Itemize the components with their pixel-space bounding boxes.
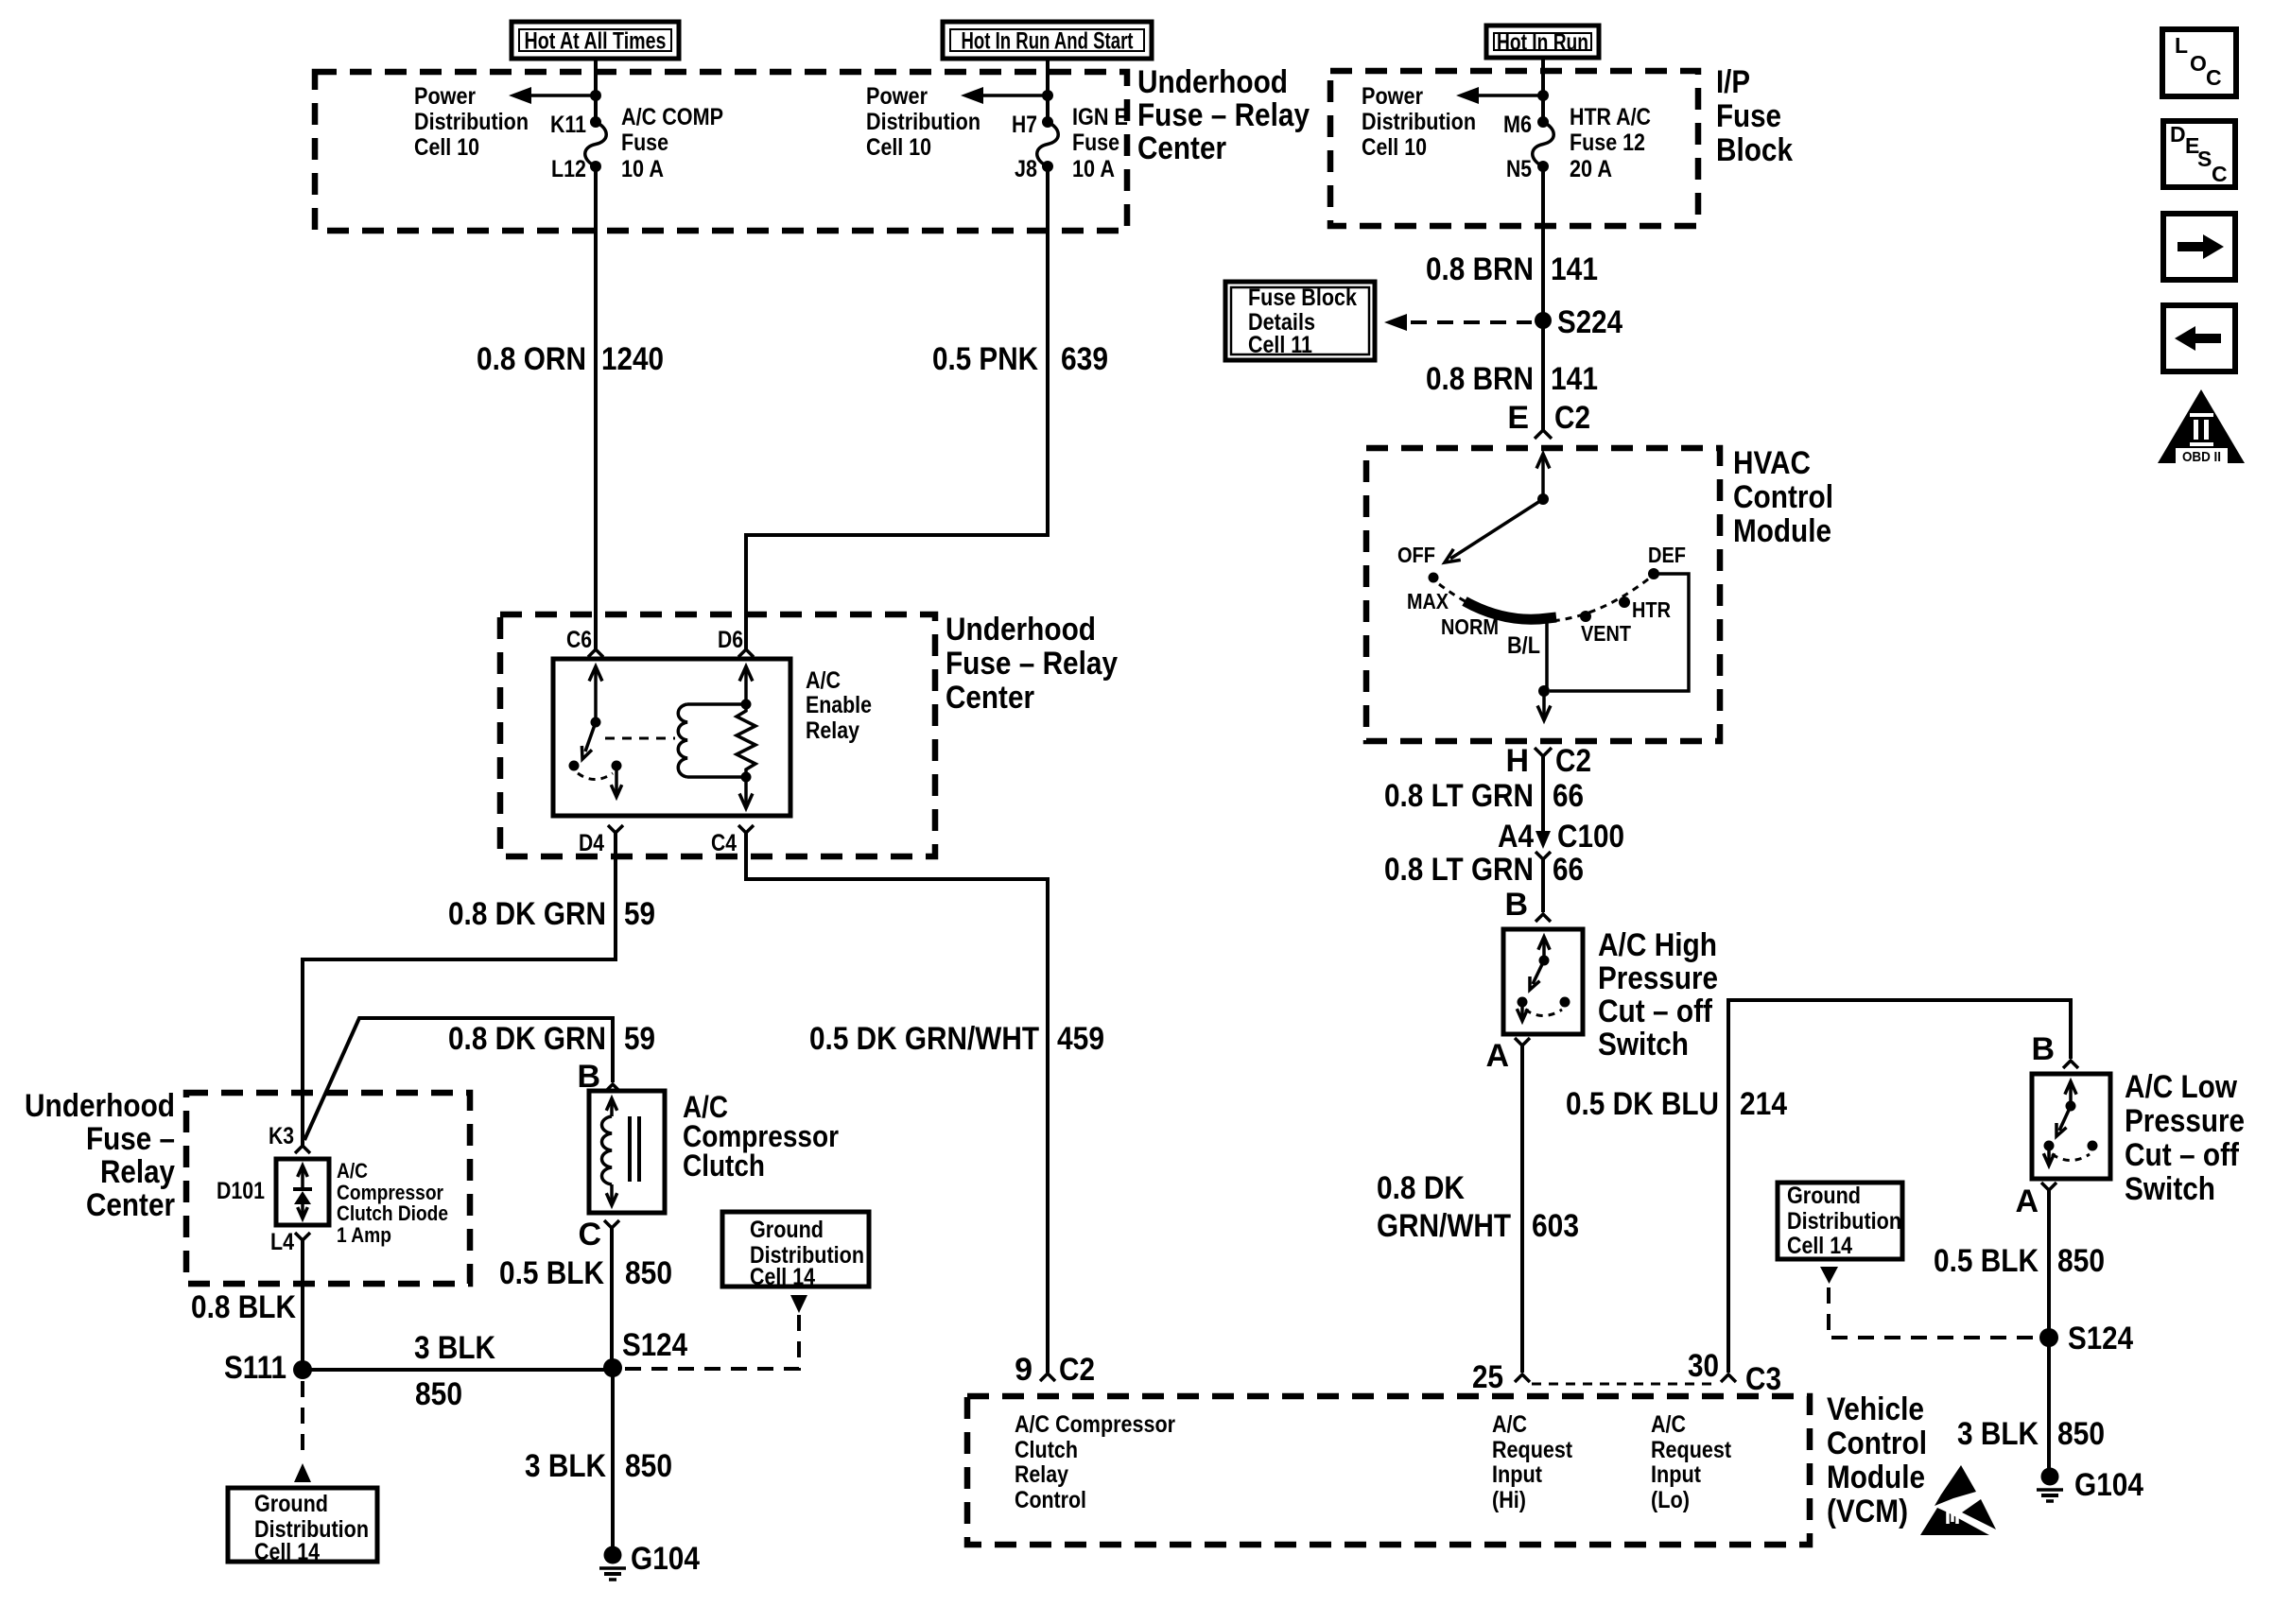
svg-text:Underhood: Underhood xyxy=(25,1088,175,1124)
HVAC pin H arrow down xyxy=(1537,691,1551,720)
svg-text:0.8 LT GRN: 0.8 LT GRN xyxy=(1384,852,1534,888)
svg-text:850: 850 xyxy=(625,1448,672,1484)
svg-text:603: 603 xyxy=(1532,1208,1579,1244)
svg-text:Center: Center xyxy=(86,1187,175,1223)
svg-text:0.5 BLK: 0.5 BLK xyxy=(1934,1243,2039,1279)
wire label 0.8 DK GRN 59 (upper) xyxy=(448,896,655,932)
svg-text:Block: Block xyxy=(1716,132,1793,168)
svg-text:10 A: 10 A xyxy=(621,156,664,182)
svg-text:Switch: Switch xyxy=(1598,1027,1689,1063)
arrow to Power Distribution Cell 10 (left) xyxy=(509,87,596,104)
svg-text:S: S xyxy=(2197,147,2212,171)
svg-text:C4: C4 xyxy=(711,830,737,856)
svg-text:Distribution: Distribution xyxy=(1787,1208,1901,1235)
svg-text:Input: Input xyxy=(1492,1461,1543,1488)
svg-text:L12: L12 xyxy=(551,156,586,182)
svg-text:Cell 10: Cell 10 xyxy=(414,134,479,161)
svg-text:HVAC: HVAC xyxy=(1733,445,1811,481)
wire from Hot At All Times to fuse K11 xyxy=(594,59,598,122)
svg-text:Distribution: Distribution xyxy=(414,109,529,135)
svg-text:Input: Input xyxy=(1651,1461,1702,1488)
svg-text:HTR: HTR xyxy=(1632,597,1671,622)
svg-text:Fuse 12: Fuse 12 xyxy=(1570,130,1645,156)
icon OBD II triangle xyxy=(2158,389,2245,465)
svg-text:A: A xyxy=(2015,1183,2039,1219)
svg-text:DEF: DEF xyxy=(1648,543,1686,567)
svg-text:66: 66 xyxy=(1553,778,1584,814)
svg-text:A/C: A/C xyxy=(806,667,841,694)
relay common node xyxy=(591,717,601,728)
relay pin C6 arrow xyxy=(589,666,602,722)
svg-text:0.8 BRN: 0.8 BRN xyxy=(1426,251,1534,287)
svg-text:0.5 PNK: 0.5 PNK xyxy=(932,341,1038,377)
wire from Hot In Run And Start to fuse H7 xyxy=(1046,59,1050,122)
pin M6 xyxy=(1503,112,1549,138)
svg-text:0.8 BLK: 0.8 BLK xyxy=(191,1289,296,1325)
svg-text:C2: C2 xyxy=(1554,400,1590,436)
svg-text:Relay: Relay xyxy=(100,1154,175,1190)
svg-text:Cut – off: Cut – off xyxy=(1598,993,1713,1029)
svg-text:Underhood: Underhood xyxy=(946,612,1096,648)
contact MAX label xyxy=(1407,589,1449,613)
relay contact arrow to D4 xyxy=(611,766,621,797)
connector B into high pressure switch xyxy=(1504,887,1551,923)
svg-text:Clutch: Clutch xyxy=(1015,1437,1078,1463)
A/C compressor clutch box xyxy=(589,1091,665,1213)
contact VENT xyxy=(1580,611,1631,646)
I/P fuse block box xyxy=(1330,71,1698,226)
svg-text:59: 59 xyxy=(624,896,655,932)
svg-text:D4: D4 xyxy=(579,830,604,856)
svg-text:141: 141 xyxy=(1551,361,1598,397)
wire label 0.5 DK GRN/WHT 459 xyxy=(809,1021,1104,1057)
splice S124 (right) xyxy=(2039,1321,2133,1356)
svg-text:H7: H7 xyxy=(1012,112,1037,138)
svg-text:Relay: Relay xyxy=(806,717,859,744)
svg-text:3 BLK: 3 BLK xyxy=(1957,1416,2039,1452)
svg-text:0.5 DK GRN/WHT: 0.5 DK GRN/WHT xyxy=(809,1021,1039,1057)
LP switch arm xyxy=(2056,1106,2071,1136)
svg-text:3 BLK: 3 BLK xyxy=(525,1448,606,1484)
svg-text:OFF: OFF xyxy=(1397,543,1435,567)
svg-text:Power: Power xyxy=(866,83,928,110)
LP switch contact A-side xyxy=(2044,1141,2055,1151)
svg-text:Vehicle: Vehicle xyxy=(1827,1391,1924,1427)
svg-text:(VCM): (VCM) xyxy=(1827,1494,1908,1529)
diode D101 box xyxy=(276,1159,329,1225)
relay coil bottom node xyxy=(741,772,752,783)
icon box arrow right xyxy=(2163,214,2235,280)
HP switch pivot node xyxy=(1539,956,1550,966)
wire VCM pin30 to low pressure switch B xyxy=(1728,1000,2071,1373)
HP switch arm xyxy=(1530,960,1544,990)
svg-text:Relay: Relay xyxy=(1015,1461,1068,1488)
diode pin L4 arrow xyxy=(298,1204,308,1218)
A/C low pressure cut-off switch box xyxy=(2032,1074,2110,1179)
relay coil top node xyxy=(741,700,752,710)
diode symbol D101 xyxy=(293,1189,312,1204)
label Power Distribution Cell 10 (3) xyxy=(1362,83,1476,161)
arrow to Power Distribution Cell 10 (mid) xyxy=(961,87,1048,104)
contact DEF xyxy=(1648,543,1686,579)
svg-text:(Hi): (Hi) xyxy=(1492,1487,1526,1513)
svg-text:M6: M6 xyxy=(1503,112,1532,138)
svg-text:Module: Module xyxy=(1827,1460,1925,1495)
pin K11 xyxy=(550,112,601,138)
svg-text:A: A xyxy=(1485,1038,1509,1074)
pin L12 xyxy=(551,156,601,182)
splice S111 xyxy=(224,1350,312,1386)
svg-text:850: 850 xyxy=(2057,1243,2105,1279)
label Power Distribution Cell 10 (1) xyxy=(414,83,529,161)
svg-text:0.8 DK: 0.8 DK xyxy=(1377,1170,1465,1206)
arrow to Power Distribution Cell 10 (right) xyxy=(1456,87,1543,104)
relay contact C4-side xyxy=(612,761,622,771)
svg-text:850: 850 xyxy=(415,1376,462,1412)
relay dashed contact arc xyxy=(578,773,613,780)
svg-text:0.8 ORN: 0.8 ORN xyxy=(477,341,586,377)
wire label 3 BLK 850 (S111-S124) xyxy=(414,1330,495,1412)
ground-ref triangle (bottom left) xyxy=(294,1463,311,1482)
svg-text:C: C xyxy=(2206,65,2222,90)
svg-text:Cell 10: Cell 10 xyxy=(866,134,931,161)
svg-text:IGN E: IGN E xyxy=(1072,104,1128,130)
ground G104 (right) xyxy=(2037,1467,2143,1503)
power feed label "Hot In Run" xyxy=(1486,26,1599,58)
HVAC wiper thick arc MAX-NORM-B/L xyxy=(1465,601,1556,619)
wire label 0.8 DK GRN/WHT 603 xyxy=(1377,1170,1579,1244)
svg-text:1240: 1240 xyxy=(601,341,664,377)
svg-text:Hot At All Times: Hot At All Times xyxy=(525,28,667,55)
underhood fuse-relay center box (top) xyxy=(315,72,1127,231)
connector 25 into VCM xyxy=(1472,1359,1530,1395)
underhood fuse-relay center box (middle) xyxy=(500,614,935,856)
wire label 0.5 BLK 850 (right) xyxy=(1934,1243,2105,1279)
wire J8 down-left to relay D6 xyxy=(746,166,1048,649)
svg-text:Hot In Run: Hot In Run xyxy=(1497,29,1588,56)
pin N5 xyxy=(1506,156,1549,182)
svg-text:B: B xyxy=(2031,1031,2055,1067)
contact HTR xyxy=(1619,596,1671,622)
contact B/L label xyxy=(1507,632,1540,659)
label Underhood Fuse-Relay Center (middle) xyxy=(946,612,1118,716)
svg-text:214: 214 xyxy=(1740,1086,1787,1122)
svg-text:9: 9 xyxy=(1015,1352,1032,1388)
pin J8 xyxy=(1015,156,1053,182)
icon box LOC xyxy=(2162,29,2236,96)
svg-text:Fuse: Fuse xyxy=(1716,98,1781,134)
connector 9 C2 into VCM xyxy=(1015,1352,1095,1388)
LP switch pin B arrow xyxy=(2065,1081,2076,1106)
fuse F12-HTR-AC symbol xyxy=(1533,122,1554,166)
node junction at top of A/C COMP fuse xyxy=(590,90,601,101)
svg-text:10 A: 10 A xyxy=(1072,156,1115,182)
svg-text:25: 25 xyxy=(1472,1359,1503,1395)
label HVAC Control Module xyxy=(1733,445,1833,549)
svg-text:Module: Module xyxy=(1733,513,1831,549)
reference box Ground Distribution Cell 14 (bottom left) xyxy=(228,1488,377,1565)
svg-text:B: B xyxy=(1504,887,1528,923)
label Power Distribution Cell 10 (2) xyxy=(866,83,980,161)
svg-text:D: D xyxy=(2170,122,2186,147)
svg-text:Fuse – Relay: Fuse – Relay xyxy=(1137,97,1310,133)
connector E C2 into HVAC xyxy=(1507,400,1590,439)
svg-text:Cut – off: Cut – off xyxy=(2125,1137,2240,1173)
svg-text:Cell 14: Cell 14 xyxy=(1787,1233,1852,1259)
ground G104 (left) xyxy=(599,1541,700,1580)
label A/C Request Input (Lo) xyxy=(1651,1411,1732,1513)
relay resistor xyxy=(737,704,755,777)
icon box arrow left xyxy=(2163,305,2235,371)
wire L12 down to relay C6 xyxy=(594,166,598,649)
label A/C Compressor Clutch Diode 1 Amp xyxy=(337,1159,448,1247)
svg-text:NORM: NORM xyxy=(1441,614,1499,639)
wire label 0.8 BLK xyxy=(191,1289,296,1325)
label A/C High Pressure Cut-off Switch xyxy=(1598,927,1718,1063)
clutch pin C arrow xyxy=(606,1184,616,1205)
label D101 xyxy=(217,1178,265,1204)
connector C6 into relay xyxy=(566,627,603,657)
svg-text:C: C xyxy=(2212,162,2228,186)
svg-text:C2: C2 xyxy=(1555,743,1591,779)
wire label 0.5 BLK 850 (left) xyxy=(499,1255,672,1291)
connector K3 into diode xyxy=(269,1123,310,1153)
svg-text:A/C High: A/C High xyxy=(1598,927,1717,963)
svg-text:Cell 14: Cell 14 xyxy=(254,1539,320,1565)
svg-text:OBD II: OBD II xyxy=(2182,449,2221,465)
node junction at top of HTR A/C fuse xyxy=(1537,90,1549,101)
label Underhood Fuse-Relay Center (left) xyxy=(25,1088,175,1223)
svg-text:Fuse Block: Fuse Block xyxy=(1248,285,1357,311)
svg-text:Fuse – Relay: Fuse – Relay xyxy=(946,646,1118,682)
svg-text:0.8 BRN: 0.8 BRN xyxy=(1426,361,1534,397)
svg-text:Fuse –: Fuse – xyxy=(86,1121,175,1157)
svg-text:Power: Power xyxy=(1362,83,1423,110)
HVAC output node xyxy=(1538,685,1550,697)
dashed ground reference from S111 xyxy=(301,1381,304,1460)
ground-ref triangle (right) xyxy=(1820,1267,1838,1284)
svg-text:(Lo): (Lo) xyxy=(1651,1487,1690,1513)
svg-text:Cell 11: Cell 11 xyxy=(1248,332,1312,358)
wire B/L down to output node xyxy=(1545,619,1549,691)
svg-text:Control: Control xyxy=(1733,479,1833,515)
svg-text:H: H xyxy=(1505,743,1529,779)
svg-text:A4: A4 xyxy=(1498,819,1534,855)
svg-text:N5: N5 xyxy=(1506,156,1532,182)
connector H C2 out of HVAC xyxy=(1505,743,1591,832)
HP switch pin B arrow xyxy=(1538,937,1550,960)
label IGN E Fuse 10 A xyxy=(1072,104,1128,182)
wire label 0.5 DK BLU 214 xyxy=(1566,1086,1787,1122)
HP switch dashed contact arc xyxy=(1525,1010,1562,1016)
svg-text:S124: S124 xyxy=(622,1327,687,1363)
LP switch dashed contact arc xyxy=(2052,1154,2090,1161)
relay coil xyxy=(678,704,746,777)
HVAC dial arc (dashed) xyxy=(1439,579,1649,622)
svg-text:C2: C2 xyxy=(1059,1352,1095,1388)
wire N5 down to HVAC E/C2 xyxy=(1541,166,1545,430)
wire label 0.8 BRN 141 (upper) xyxy=(1426,251,1598,287)
svg-text:C100: C100 xyxy=(1557,819,1624,855)
svg-text:Control: Control xyxy=(1015,1487,1086,1513)
svg-text:Fuse: Fuse xyxy=(621,130,668,156)
wire from Hot In Run to fuse M6 xyxy=(1541,58,1545,122)
svg-text:Distribution: Distribution xyxy=(1362,109,1476,135)
svg-text:L: L xyxy=(2175,33,2188,58)
svg-text:Enable: Enable xyxy=(806,692,872,718)
wire label 0.8 LT GRN 66 (lower) xyxy=(1384,852,1584,888)
relay contact D4-side xyxy=(569,761,580,771)
svg-text:J8: J8 xyxy=(1015,156,1037,182)
clutch core lines xyxy=(630,1116,639,1182)
svg-text:O: O xyxy=(2190,51,2207,76)
dashed ground reference to S124 right xyxy=(1829,1287,2038,1338)
svg-text:66: 66 xyxy=(1553,852,1584,888)
svg-text:30: 30 xyxy=(1688,1348,1719,1384)
svg-text:A/C COMP: A/C COMP xyxy=(621,104,723,130)
svg-text:L4: L4 xyxy=(270,1229,294,1255)
wire label 0.8 BRN 141 (lower) xyxy=(1426,361,1598,397)
svg-text:0.8 DK GRN: 0.8 DK GRN xyxy=(448,896,606,932)
connector L4 out of diode xyxy=(270,1229,310,1370)
svg-text:D101: D101 xyxy=(217,1178,265,1204)
diode pin K3 arrow xyxy=(298,1166,308,1188)
connector C4 out of relay xyxy=(711,825,1048,1373)
svg-text:GRN/WHT: GRN/WHT xyxy=(1377,1208,1511,1244)
LP switch pivot node xyxy=(2066,1101,2076,1112)
reference box Ground Distribution Cell 14 (middle) xyxy=(722,1212,869,1290)
svg-text:Request: Request xyxy=(1492,1437,1573,1463)
label A/C COMP Fuse 10 A xyxy=(621,104,723,182)
connector B into low pressure switch xyxy=(2031,1031,2078,1068)
icon box DESC xyxy=(2163,121,2235,187)
label I/P Fuse Block xyxy=(1716,64,1793,168)
svg-text:S224: S224 xyxy=(1557,304,1622,340)
svg-text:Center: Center xyxy=(946,680,1034,716)
svg-text:E: E xyxy=(1507,400,1529,436)
wire label 0.5 PNK 639 xyxy=(932,341,1108,377)
svg-text:K3: K3 xyxy=(269,1123,294,1149)
connector C out of clutch xyxy=(578,1217,619,1368)
svg-text:Power: Power xyxy=(414,83,476,110)
svg-text:A/C Low: A/C Low xyxy=(2125,1069,2237,1105)
svg-text:Pressure: Pressure xyxy=(1598,960,1718,996)
relay pin C4 arrow xyxy=(739,777,753,808)
reference box Fuse Block Details Cell 11 xyxy=(1225,282,1375,360)
svg-text:850: 850 xyxy=(625,1255,672,1291)
clutch pin B arrow xyxy=(606,1098,616,1116)
wire label 3 BLK 850 (left column) xyxy=(525,1448,672,1484)
label A/C Compressor Clutch Relay Control xyxy=(1015,1411,1175,1513)
connector B into clutch xyxy=(577,1059,620,1095)
node junction at top of IGN E fuse xyxy=(1042,90,1053,101)
contact OFF xyxy=(1397,543,1439,583)
svg-text:Hot In Run And Start: Hot In Run And Start xyxy=(962,28,1135,55)
relay mechanical link (dashed) xyxy=(605,737,675,740)
svg-text:Control: Control xyxy=(1827,1425,1927,1461)
svg-text:C6: C6 xyxy=(566,627,592,653)
vehicle control module box xyxy=(967,1396,1810,1545)
fuse F-AC-COMP symbol xyxy=(585,122,607,166)
LP switch arrow to pin A xyxy=(2043,1146,2054,1166)
HVAC control module box xyxy=(1366,448,1720,741)
svg-text:C3: C3 xyxy=(1745,1361,1781,1397)
wire label 0.8 LT GRN 66 (upper) xyxy=(1384,778,1584,814)
label Underhood Fuse-Relay Center (top) xyxy=(1137,64,1310,166)
label A/C Low Pressure Cut-off Switch xyxy=(2125,1069,2245,1207)
HP switch arrow to pin A xyxy=(1517,1002,1527,1021)
svg-text:MAX: MAX xyxy=(1407,589,1449,613)
svg-text:Switch: Switch xyxy=(2125,1171,2215,1207)
svg-text:59: 59 xyxy=(624,1021,655,1057)
fuse F-IGN-E symbol xyxy=(1037,122,1059,166)
svg-text:D6: D6 xyxy=(718,627,743,653)
LP switch contact NC-side xyxy=(2088,1141,2098,1151)
svg-text:I/P: I/P xyxy=(1716,64,1750,100)
dashed reference line to Fuse Block Details xyxy=(1384,314,1532,331)
svg-text:Fuse: Fuse xyxy=(1072,130,1119,156)
svg-text:Ground: Ground xyxy=(750,1217,824,1243)
svg-text:Ground: Ground xyxy=(254,1491,328,1517)
svg-text:459: 459 xyxy=(1057,1021,1104,1057)
underhood fuse-relay center box (left) xyxy=(186,1093,470,1284)
svg-text:Distribution: Distribution xyxy=(866,109,980,135)
HVAC pin E arrow xyxy=(1536,454,1550,499)
label Vehicle Control Module (VCM) xyxy=(1827,1391,1927,1529)
svg-text:Pressure: Pressure xyxy=(2125,1103,2245,1139)
wire DEF loop to output node xyxy=(1550,574,1689,691)
svg-text:0.8 LT GRN: 0.8 LT GRN xyxy=(1384,778,1534,814)
HVAC selector arm to OFF xyxy=(1445,499,1543,562)
A/C enable relay box xyxy=(553,659,790,816)
ground-ref triangle (middle) xyxy=(790,1295,807,1313)
svg-text:A/C: A/C xyxy=(1651,1411,1686,1438)
svg-text:Cell 10: Cell 10 xyxy=(1362,134,1427,161)
wire label 0.8 ORN 1240 xyxy=(477,341,664,377)
svg-text:850: 850 xyxy=(2057,1416,2105,1452)
svg-text:141: 141 xyxy=(1551,251,1598,287)
HP switch contact NC-side xyxy=(1560,997,1570,1008)
connector 30 C3 into VCM xyxy=(1688,1348,1781,1397)
wire S124 down to G104 left xyxy=(611,1368,615,1557)
svg-text:B/L: B/L xyxy=(1507,632,1540,659)
HP switch contact A-side xyxy=(1518,997,1528,1008)
svg-text:A/C: A/C xyxy=(337,1159,368,1183)
ESD sensitive symbol xyxy=(1920,1465,1996,1535)
pin H7 xyxy=(1012,112,1053,138)
power feed label "Hot At All Times" xyxy=(512,22,679,59)
wire label 0.8 DK GRN 59 (lower) xyxy=(448,1021,655,1057)
contact NORM label xyxy=(1441,614,1499,639)
svg-text:20 A: 20 A xyxy=(1570,156,1612,182)
svg-text:G104: G104 xyxy=(631,1541,700,1577)
label HTR A/C Fuse 12 20 A xyxy=(1570,104,1651,182)
svg-text:Request: Request xyxy=(1651,1437,1732,1463)
svg-text:Clutch Diode: Clutch Diode xyxy=(337,1201,448,1225)
power feed label "Hot In Run And Start" xyxy=(943,22,1152,59)
connector D4 out of relay xyxy=(303,825,623,1146)
HVAC selector common node xyxy=(1537,493,1549,505)
svg-text:A/C: A/C xyxy=(1492,1411,1527,1438)
wire branch K3 to compressor clutch B xyxy=(304,1018,613,1140)
label A/C Request Input (Hi) xyxy=(1492,1411,1573,1513)
svg-text:Ground: Ground xyxy=(1787,1183,1861,1209)
svg-text:A/C Compressor: A/C Compressor xyxy=(1015,1411,1175,1438)
wire S111 to S124 xyxy=(303,1368,613,1372)
splice S124 (left) xyxy=(603,1327,687,1377)
inline connector A4 C100 xyxy=(1498,819,1624,912)
A/C high pressure cut-off switch box xyxy=(1503,929,1583,1034)
